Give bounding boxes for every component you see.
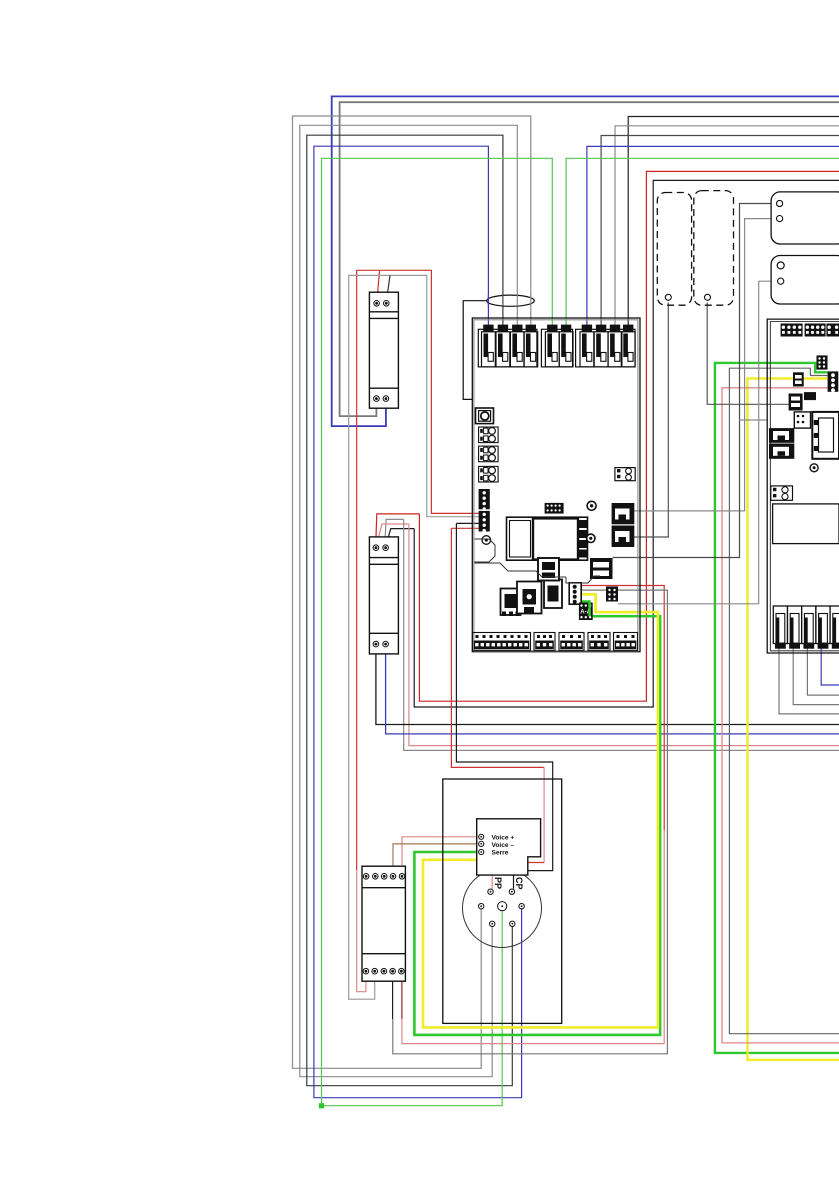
wire: gray dashed-box1 circle to PCB RJ45-2: [634, 303, 668, 538]
relay group box: [576, 329, 635, 367]
wire: blue loop pin R to PCB relay 4: [314, 146, 522, 1097]
wire: K2 black feed to PCB connector: [386, 529, 414, 546]
inner box terminals: [479, 834, 484, 839]
wire: red slant into K1 T1: [377, 271, 380, 301]
wire: green segment over A-A: [588, 602, 591, 617]
screw terminal strip at x=588.0: [588, 633, 610, 651]
right PCB small module with dots: [794, 412, 810, 428]
central PCB relay connector row: [478, 325, 635, 367]
relay connector at x=517.3: [512, 325, 522, 332]
relay group box: [541, 329, 572, 367]
wire: dark loop pin BR to PCB relay 3: [307, 135, 513, 1085]
wire: yellow thick from PCB connector to door box: [423, 594, 658, 1027]
2x2 connector top right of PCB: [615, 468, 635, 481]
DIN module K2 (middle left): [369, 537, 398, 654]
RJ45 socket side-view bottom left: [501, 589, 521, 616]
screw terminal strip at x=559.0: [559, 633, 584, 651]
DIN module K1 (top left power supply): [369, 292, 398, 408]
dashed box 1 (optional module): [657, 193, 691, 306]
wire: yellow segment over A-A: [594, 594, 597, 612]
wire: gray PCB RJ45-1 to intercom unit circle: [634, 219, 776, 511]
dashed box 2 terminal: [705, 294, 711, 300]
8-pin connector strip on PCB left: [479, 489, 490, 509]
wire: yellow right to 4pin connector and off-page bottom right: [748, 379, 839, 1060]
wire: black from PCB relay 10 off-page right: [628, 117, 839, 335]
relay connector at x=615.0: [610, 325, 620, 332]
svg-text:CP: CP: [514, 877, 524, 890]
RJ45 jack 2 central PCB: [612, 526, 635, 548]
wire: Voice+ salmon from K3 T5t: [402, 837, 479, 874]
right PCB RJ45 jack 2: [769, 444, 794, 459]
terminal pair block at y=427.0: [479, 427, 499, 443]
relay connector at x=601.1: [596, 325, 606, 332]
right PCB USB module: [789, 394, 803, 411]
3 small terminal pairs on PCB left: [479, 427, 499, 482]
right PCB relay at x=823.0: [816, 606, 830, 644]
micro-USB connector: [538, 558, 559, 581]
right PCB terminal block at x=804.6: [805, 324, 826, 337]
module with dark center: [517, 582, 542, 614]
right PCB small component: [793, 372, 804, 386]
wire: salmon right to 4pin connector and off-page bottom right: [722, 388, 839, 1043]
intercom unit 1 (rounded box top right): [771, 192, 839, 244]
wire: gray intercom2 circle to central PCB USB: [618, 281, 777, 604]
wire: black intercom unit circle 1 to right PCB: [613, 204, 777, 558]
svg-text:PP: PP: [493, 877, 503, 889]
right PCB relay at x=794.6: [788, 606, 802, 644]
right PCB relay at x=808.8: [802, 606, 816, 644]
relay connector at x=488.4: [483, 325, 493, 332]
wire: gray loop pin BL to PCB relay 2: [300, 125, 518, 1076]
right PCB group box: [767, 319, 839, 653]
terminal pair block at y=466.4: [479, 466, 499, 482]
round connector circle: [463, 869, 542, 948]
right PCB 4-pin connector: [828, 371, 839, 391]
right PCB small grid connector: [817, 355, 828, 369]
PCB trace outline 2: [475, 539, 496, 562]
GSM module block center: [507, 517, 588, 560]
terminal pair block at y=446.1: [479, 446, 499, 462]
relay connector at x=530.8: [526, 325, 536, 332]
top connector grid on PCB: [545, 503, 564, 514]
right PCB RJ45 jack 1: [769, 428, 794, 443]
screw hole below connector: [482, 536, 491, 545]
relay connector at x=502.9: [498, 325, 508, 332]
right PCB screw: [810, 464, 818, 472]
wire: salmon to PP pin of round connector: [451, 528, 544, 767]
screw hole mid: [587, 501, 596, 510]
ferrite ellipse on cable: [487, 295, 535, 306]
wire: K2 red feed to PCB connector: [376, 514, 420, 545]
wire: gray dashed-box2 circle to right PCB: [707, 303, 788, 405]
connector module B: [544, 580, 562, 609]
wire: red loop K3 T1b up around K1 into PCB connector: [357, 870, 366, 992]
right PCB terminal block at x=780.6: [781, 324, 803, 337]
wire: right PCB relay outputs off-page: [779, 649, 839, 714]
wire: salmon drop from K2 row off-page right: [409, 524, 839, 746]
wire: gray drop from K2 row off-page right: [404, 519, 839, 750]
door station outer box (bottom): [443, 779, 562, 1023]
central PCB outer enclosure box: [463, 301, 487, 400]
wire: blue right PCB relay output: [821, 649, 839, 686]
wire: green loop pin C to PCB relay 5: [322, 158, 553, 1105]
node: green square junction marker: [319, 1103, 324, 1108]
right PCB board outline: [770, 322, 839, 651]
central PCB gray inner outline: [474, 320, 638, 651]
wire: gray loop K3 T2b up around K1 into PCB connector: [349, 275, 479, 999]
relay connector at x=566.1: [561, 325, 571, 332]
central PCB board outline: [472, 318, 640, 652]
svg-text:Voice –: Voice –: [492, 842, 515, 849]
dashed box 2 (optional module): [694, 191, 734, 306]
RJ45 jack 1 central PCB: [612, 503, 635, 524]
svg-text:Serre: Serre: [492, 850, 509, 857]
wire: segments crossing ferrite ellipse: [488, 295, 530, 306]
right PCB relay row: [773, 606, 839, 649]
wire: K2 salmon feed to PCB connector: [377, 524, 409, 546]
right PCB top terminal blocks: [781, 324, 839, 337]
relay connector at x=552.3: [547, 325, 557, 332]
wire: K2 bottom T1 black off-page right: [376, 646, 839, 725]
svg-text:Voice +: Voice +: [492, 834, 515, 841]
right PCB empty rectangle: [773, 504, 839, 544]
right PCB terminal block at x=826.4: [826, 324, 839, 337]
wire: gray mains from K1 bottom T1 to top edge, off-page right: [340, 102, 839, 416]
round connector pins: [488, 889, 493, 894]
wire: gray loop pin L of round connector to PCB relay 1: [293, 116, 531, 1068]
wire: red from PCB connector down around to K3 T5b: [581, 586, 664, 831]
wire: dark from PCB relay 8 off-page right: [601, 136, 839, 335]
4-pin wire connector: [569, 583, 581, 604]
wire: blue mains from K1 bottom T2 to top edge, off-page right: [332, 96, 839, 426]
wire: blue from PCB relay 7 off-page right: [587, 146, 839, 334]
wire: gray from PCB connector down around to K3 T4b: [393, 590, 668, 1054]
wire: black to CP pin of round connector: [456, 523, 552, 888]
screw terminal strip at x=613.5: [614, 633, 638, 651]
door station inner terminal box: [477, 819, 541, 875]
wire: K2 bottom T2 blue off-page right: [386, 646, 839, 734]
relay group box: [478, 329, 537, 367]
USB connector central PCB: [590, 558, 613, 579]
screw hole on module right: [587, 534, 595, 542]
right PCB 2x2 connector: [771, 486, 793, 500]
wire: green right to 4pin connector and off-page bottom right: [715, 363, 839, 1053]
wire: Voice- brown from K3 T4t: [393, 844, 479, 874]
intercom unit 2 (rounded box): [771, 256, 839, 305]
DIN terminal block K3 (bottom left): [362, 866, 405, 981]
wire: dark slant into K1 T2: [387, 275, 391, 300]
A-A labelled block: [579, 603, 593, 621]
speaker/buzzer on PCB: [476, 408, 494, 424]
bottom terminal strips central PCB: [473, 633, 638, 651]
small dots block right: [606, 587, 618, 602]
wire: Serre green thick from PCB connector: [414, 602, 660, 1035]
screw terminal strip at x=534.0: [534, 633, 555, 651]
wire: black big loop from K2 drop to top right off-page: [414, 180, 839, 707]
wire: K2 gray feed to PCB connector: [385, 519, 404, 545]
right PCB relay at x=780.4: [773, 606, 787, 644]
relay connector at x=586.9: [582, 325, 592, 332]
wire: green from PCB relay 6 off-page right: [566, 158, 839, 334]
right PCB big module: [812, 412, 839, 459]
relay connector at x=628.2: [623, 325, 633, 332]
dashed box 1 terminal: [665, 294, 671, 300]
PCB trace outline: [475, 563, 601, 583]
screw terminal strip at x=472.5: [473, 633, 531, 651]
right PCB relay at x=837.2: [830, 606, 839, 644]
wire: gray from PCB relay 9 off-page right: [615, 126, 839, 334]
wire: red big loop from K2 drop to top right off-page: [419, 171, 839, 701]
wire: gray right to 4pin connector and off-page bottom right: [729, 368, 839, 1033]
